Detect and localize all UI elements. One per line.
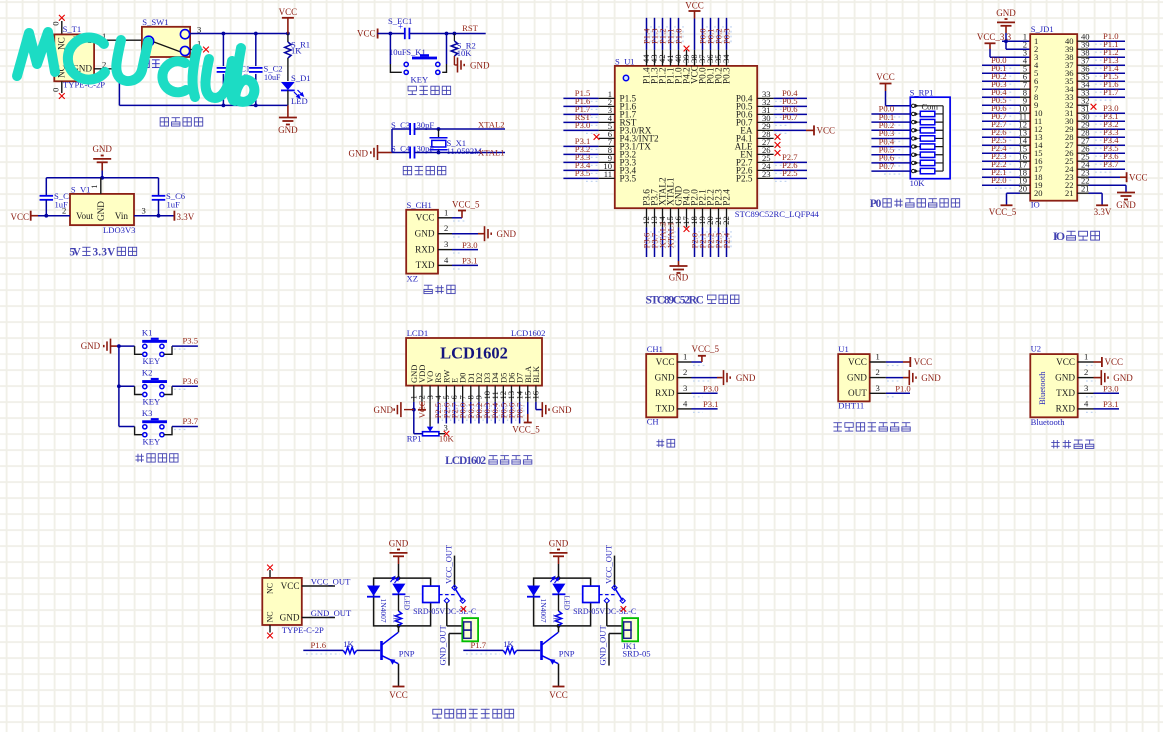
JD1 right pin 36 P1.4: [1077, 63, 1125, 76]
svg-text:LCD1602: LCD1602: [511, 328, 545, 338]
svg-text:3: 3: [876, 383, 880, 393]
chip top pin 44 P1.4: [641, 18, 651, 84]
svg-text:P0.3: P0.3: [721, 67, 731, 84]
svg-text:KEY: KEY: [143, 356, 161, 366]
svg-text:P3.0: P3.0: [1103, 383, 1119, 393]
svg-text:TXD: TXD: [416, 260, 435, 270]
svg-text:SRD-05: SRD-05: [622, 649, 650, 659]
svg-text:LCD1602: LCD1602: [445, 455, 486, 467]
svg-text:GND: GND: [1113, 373, 1133, 383]
svg-text:U1: U1: [838, 344, 849, 354]
chip top pin 41 P1.1: [665, 18, 675, 84]
svg-text:Vin: Vin: [115, 211, 129, 221]
svg-text:VCC: VCC: [389, 690, 408, 700]
LCD pin4 P2.5: [433, 386, 443, 424]
svg-text:XTAL2: XTAL2: [478, 120, 505, 130]
svg-text:LCD1602: LCD1602: [440, 344, 508, 363]
LED relay P1.7: [551, 577, 572, 611]
value 10K RP1: [910, 178, 926, 188]
svg-text:P2.4: P2.4: [721, 232, 731, 248]
svg-text:GND: GND: [996, 8, 1016, 18]
caption 温湿度检测模块: [833, 423, 910, 431]
chip left pin 11 P3.5: [563, 168, 636, 183]
resistor 1K vertical P1.6: [392, 594, 402, 626]
chip bottom pin 17 P4.0: [681, 189, 691, 232]
power port VCC transistor P1.7: [549, 664, 568, 700]
connector S_CH1 XZ: [406, 210, 438, 284]
svg-text:21: 21: [1065, 188, 1074, 198]
svg-text:RXD: RXD: [415, 244, 435, 254]
JD1 left pin 7 P0.3: [982, 79, 1030, 92]
power port VCC_5 download: [438, 200, 480, 222]
net label XTAL1: [478, 147, 505, 157]
svg-text:K3: K3: [142, 408, 153, 418]
chip left pin 7 P3.1/TX: [563, 136, 651, 151]
svg-text:1: 1: [876, 352, 880, 362]
wire GND to JD1 pin1: [1002, 40, 1030, 42]
wire input P1.6: [303, 650, 343, 654]
switch label 开关: [141, 60, 159, 68]
LCD pin7 P0.0: [457, 386, 467, 424]
svg-text:P3.7: P3.7: [1103, 159, 1119, 169]
diode 1N4007 P1.6: [367, 586, 388, 623]
svg-text:VCC_OUT: VCC_OUT: [604, 544, 614, 584]
ground GND keys: [81, 339, 119, 354]
svg-text:VCC_3.3: VCC_3.3: [977, 32, 1012, 42]
svg-text:P0.7: P0.7: [879, 161, 895, 171]
regulator U LDO3V3: [70, 178, 135, 235]
connector CH1 designator: [647, 344, 663, 354]
capacitor S_C4 30pF: [391, 143, 434, 158]
chip bottom pin 22 P2.4: [721, 189, 731, 257]
svg-text:1K: 1K: [343, 639, 354, 649]
svg-text:S_SW1: S_SW1: [142, 17, 168, 27]
svg-text:KEY: KEY: [143, 437, 161, 447]
wire Vin to 3.3V: [134, 206, 195, 222]
svg-text:VCC: VCC: [281, 581, 300, 591]
chip top pin 40 P1.0: [673, 18, 683, 84]
potentiometer RP1 10K: [407, 423, 455, 444]
svg-text:10K: 10K: [910, 178, 926, 188]
switch S_SW1: [142, 27, 190, 57]
svg-text:1: 1: [683, 352, 687, 362]
svg-text:1N4007: 1N4007: [379, 599, 388, 623]
svg-text:VCC: VCC: [416, 213, 435, 223]
wire input P1.7: [463, 650, 503, 654]
wire keys common vertical: [117, 344, 121, 426]
svg-text:VCC: VCC: [876, 72, 895, 82]
chip right pin 28 P4.1: [736, 129, 781, 144]
JD1 right pin 25 P3.6: [1077, 151, 1125, 164]
resistor S_R1 1K: [285, 34, 310, 82]
svg-text:GND_OUT: GND_OUT: [598, 625, 608, 666]
capacitor S_C2 10uF: [249, 63, 283, 82]
LCD pin3 VO to wiper: [425, 386, 435, 432]
svg-text:PNP: PNP: [559, 649, 575, 659]
chip top pin 42 P1.2: [657, 18, 667, 84]
wire P0.5 to RP1: [871, 144, 910, 157]
wire C4 to XTAL1: [415, 151, 506, 155]
svg-text:S_T1: S_T1: [63, 24, 82, 34]
svg-text:CH: CH: [647, 417, 659, 427]
svg-text:P3.5: P3.5: [575, 168, 591, 178]
net label P1.6: [311, 640, 327, 650]
chip top pin 35 P0.2: [713, 18, 723, 84]
svg-text:S_C2: S_C2: [264, 63, 283, 73]
sensor U1 designator: [838, 344, 849, 354]
svg-text:10uF: 10uF: [264, 73, 281, 82]
JD1 left pin 9 P0.5: [982, 95, 1030, 108]
connector relay TYPE-C-2P: [262, 578, 324, 635]
LCD pin12 P0.5: [498, 386, 508, 424]
svg-text:P3.6: P3.6: [183, 376, 199, 386]
LCD pin15 BLA to VCC_5: [522, 386, 532, 423]
svg-text:P3.1: P3.1: [462, 256, 478, 266]
LED S_D1: [281, 73, 311, 106]
no-connect X at TYPE-C T1 pin bottom: [51, 81, 65, 99]
chip right pin 24 P2.6: [736, 160, 807, 175]
svg-text:Bluetooth: Bluetooth: [1037, 371, 1047, 405]
svg-text:OUT: OUT: [848, 388, 867, 398]
LCD pin1 GND wire: [409, 386, 419, 434]
svg-text:10K: 10K: [457, 48, 473, 58]
JD1 left pin 18 P2.1: [982, 167, 1030, 180]
no-connect switch pin1: [190, 39, 209, 53]
svg-text:GND: GND: [349, 149, 369, 159]
svg-text:GND: GND: [389, 539, 409, 549]
chip bottom pin 12 P3.6: [641, 189, 651, 257]
svg-text:GND: GND: [549, 539, 569, 549]
crystal S_X1 11.0592M: [430, 129, 483, 156]
svg-text:VCC: VCC: [1056, 357, 1075, 367]
wire P0.0 to RP1: [871, 104, 910, 117]
svg-text:IO: IO: [1031, 200, 1040, 210]
power port VCC DHT11: [870, 352, 932, 368]
resistor 1K vertical P1.7: [552, 594, 562, 626]
svg-text:GND: GND: [847, 372, 867, 382]
key K2 designator: [142, 368, 153, 378]
chip bottom pin 20 P2.2: [705, 189, 715, 257]
wire C2 to rail: [255, 74, 257, 106]
wire T1 pin1 to switch: [94, 31, 142, 41]
JD1 left pin 17 P2.2: [982, 159, 1030, 172]
svg-text:3: 3: [142, 206, 146, 216]
JD1 right pin 29 P3.2: [1077, 119, 1125, 132]
relay coil SRD-05VDC-SL-C P1.7: [573, 586, 636, 616]
net GND_OUT P1.7: [598, 625, 623, 666]
key K2 KEY: [119, 378, 172, 406]
sensor U1 DHT11: [838, 354, 870, 410]
JD1 pin 22 to GND: [1077, 175, 1126, 192]
svg-text:1K: 1K: [291, 46, 302, 56]
switch S_SW1 designator: [142, 17, 168, 27]
svg-text:VCC: VCC: [1105, 357, 1124, 367]
svg-text:4: 4: [683, 398, 688, 408]
connector S_JD1 IO 40-pin: [1030, 34, 1077, 201]
svg-text:TXD: TXD: [1056, 388, 1075, 398]
module U2 designator: [1031, 343, 1042, 353]
svg-text:STC89C52RC: STC89C52RC: [645, 294, 704, 306]
key S_K1 designator: [406, 47, 426, 57]
svg-text:GND: GND: [552, 405, 572, 415]
chip left pin 2 P1.6: [563, 96, 636, 111]
wire P1.0 DHT11: [870, 383, 911, 397]
svg-text:3.3V: 3.3V: [92, 246, 115, 258]
ground GND reset: [454, 56, 490, 73]
svg-text:20: 20: [1018, 183, 1027, 193]
caption 5V转3.3V电路: [69, 246, 136, 258]
wire relay frame P1.7: [534, 576, 591, 628]
resistor S_R2 10K: [451, 34, 476, 59]
JD1 right pin 39 P1.1: [1077, 39, 1125, 52]
chip right pin 23 P2.5: [736, 168, 807, 183]
chip right pin 29 EA: [740, 121, 835, 136]
svg-text:1N4007: 1N4007: [539, 599, 548, 623]
JD1 left pin 11 P0.7: [982, 111, 1030, 124]
net label P1.7: [471, 640, 487, 650]
wire P3.1 serial: [677, 398, 718, 412]
chip bottom pin 13 P3.7: [649, 189, 659, 257]
ground GND of power circuit: [278, 105, 298, 135]
LCD1602 part label: [511, 328, 545, 338]
wire to C2: [255, 34, 257, 67]
net GND_OUT P1.6: [438, 625, 463, 666]
JD1 pin numbers 1-3 outside: [1023, 31, 1027, 57]
svg-text:P0: P0: [870, 198, 882, 210]
LCD pin13 P0.6: [506, 386, 516, 424]
key S_K1 KEY: [390, 54, 446, 84]
terminal JK P1.7: [622, 618, 650, 659]
svg-text:XZ: XZ: [407, 274, 418, 284]
regulator S_V1 designator: [71, 185, 91, 195]
svg-text:GND: GND: [736, 373, 756, 383]
svg-text:IO: IO: [1053, 229, 1065, 243]
key K3 designator: [142, 408, 153, 418]
LCD pin9 P0.2: [474, 386, 484, 424]
caption LCD1602显示模块: [445, 455, 532, 467]
caption 复位电路: [408, 86, 451, 94]
wire P0.2 to RP1: [871, 120, 910, 133]
ground GND relay P1.7: [549, 539, 569, 579]
svg-text:VCC_OUT: VCC_OUT: [444, 544, 454, 584]
svg-text:LED: LED: [291, 96, 308, 106]
svg-text:P2.5: P2.5: [782, 168, 798, 178]
net VCC_OUT P1.7: [604, 544, 615, 588]
LCD1602 display body: [406, 338, 542, 386]
svg-text:RXD: RXD: [655, 388, 675, 398]
key S_K1 left leg: [389, 34, 391, 65]
resistor 1K input P1.6: [343, 639, 377, 654]
svg-text:1K: 1K: [503, 639, 514, 649]
wire NO contact to JK P1.6: [447, 603, 463, 626]
svg-text:10K: 10K: [439, 434, 455, 444]
svg-text:P3.0: P3.0: [703, 383, 719, 393]
svg-text:VCC_5: VCC_5: [692, 344, 720, 354]
svg-text:GND: GND: [1055, 372, 1075, 382]
wire P0.6 to RP1: [871, 153, 910, 166]
svg-text:P2.0: P2.0: [991, 175, 1007, 185]
caption STC89C52RC主芯片: [645, 294, 738, 306]
svg-text:2: 2: [1084, 367, 1088, 377]
ground GND DHT11: [870, 367, 942, 385]
svg-text:DHT11: DHT11: [838, 400, 864, 410]
JD1 left pin 15 P2.4: [982, 143, 1030, 156]
svg-text:TXD: TXD: [656, 404, 675, 414]
relay coil SRD-05VDC-SL-C P1.6: [413, 586, 476, 616]
svg-text:P1.7: P1.7: [1103, 87, 1119, 97]
svg-text:VCC_5: VCC_5: [989, 207, 1017, 217]
svg-text:GND: GND: [81, 341, 101, 351]
svg-text:P1.7: P1.7: [471, 640, 487, 650]
svg-text:GND: GND: [280, 613, 300, 623]
svg-text:S_D1: S_D1: [291, 73, 311, 83]
JD1 pin 23 VCC: [1077, 167, 1147, 182]
svg-text:TYPE-C-2P: TYPE-C-2P: [282, 625, 324, 635]
net label RST: [462, 23, 479, 33]
svg-text:VCC: VCC: [848, 357, 867, 367]
key K1 designator: [142, 327, 153, 337]
JD1 left pin 12 P2.7: [982, 119, 1030, 132]
svg-text:GND: GND: [921, 373, 941, 383]
wire relay frame P1.6: [374, 576, 431, 628]
LCD pin5 P2.6: [441, 386, 451, 424]
ground GND bluetooth: [1078, 367, 1134, 385]
ground GND JD1 bottom right: [1116, 193, 1136, 211]
svg-text:P3.0: P3.0: [575, 120, 591, 130]
svg-text:P0.7: P0.7: [782, 112, 798, 122]
wire K2 to P3.6: [172, 376, 199, 389]
svg-text:STC89C52RC_LQFP44: STC89C52RC_LQFP44: [735, 209, 820, 219]
JD1 left pin 4 P0.0: [982, 55, 1030, 68]
chip bottom pin 18 P2.0: [689, 189, 699, 257]
wire GND_OUT stub: [302, 608, 352, 618]
power VCC_5 LCD: [512, 424, 540, 434]
svg-text:P3.0: P3.0: [462, 240, 478, 250]
svg-text:VCC_5: VCC_5: [512, 424, 540, 434]
key K1 KEY: [119, 338, 172, 366]
power port VCC reset: [357, 29, 404, 39]
svg-text:GND: GND: [415, 229, 435, 239]
chip part name STC89C52RC_LQFP44: [735, 209, 820, 219]
JD1 left pin 19 P2.0: [982, 175, 1030, 188]
caption 串口: [656, 439, 674, 447]
chip left pin 3 P1.7: [563, 104, 636, 119]
svg-text:VCC: VCC: [914, 357, 933, 367]
svg-text:3.3V: 3.3V: [1094, 207, 1112, 217]
svg-text:3: 3: [683, 383, 687, 393]
svg-text:+: +: [398, 22, 403, 32]
svg-text:4: 4: [1084, 398, 1089, 408]
JD1 right pin 28 P3.3: [1077, 127, 1125, 140]
JD1 left pin 8 P0.4: [982, 87, 1030, 100]
LCD pin8 P0.1: [465, 386, 475, 424]
svg-text:P2.4: P2.4: [721, 189, 731, 206]
svg-text:P3.5: P3.5: [183, 336, 199, 346]
chip bottom pin 14 XTAL2: [657, 177, 667, 257]
connector S_JD1 IO label: [1031, 200, 1040, 210]
ground GND JD1 top: [996, 8, 1016, 49]
svg-text:20: 20: [1034, 188, 1043, 198]
svg-text:GND: GND: [1116, 200, 1136, 210]
svg-text:S_CH1: S_CH1: [407, 200, 432, 210]
JD1 right pin 38 P1.2: [1077, 47, 1125, 60]
connector S_T1 designator: [63, 24, 82, 34]
wire C3 to XTAL2: [415, 127, 506, 131]
svg-text:S_JD1: S_JD1: [1031, 24, 1054, 34]
net label XTAL2: [478, 120, 505, 130]
power circuit bottom rail: [119, 104, 288, 108]
wire P3.0 bluetooth: [1078, 383, 1119, 397]
chip right pin 25 P2.7: [736, 152, 807, 167]
JD1 right pin 32 no-connect: [1077, 95, 1096, 109]
ground GND LCD right: [542, 402, 572, 417]
svg-text:P0.7: P0.7: [515, 402, 525, 418]
svg-text:GND: GND: [470, 60, 490, 70]
LCD pin6 P2.7: [449, 386, 459, 424]
JD1 right pin 35 P1.5: [1077, 71, 1125, 84]
LCD pin16 BLK to GND: [531, 386, 542, 410]
caption P0口上拉电阻电路: [870, 198, 960, 210]
svg-text:3: 3: [1023, 47, 1027, 57]
power port VCC: [279, 7, 298, 34]
svg-text:1: 1: [1084, 352, 1088, 362]
svg-text:VCC: VCC: [817, 125, 836, 135]
capacitor S_C1 10uF: [217, 63, 250, 82]
svg-text:P1.6: P1.6: [311, 640, 327, 650]
svg-text:Bluetooth: Bluetooth: [1031, 417, 1066, 427]
svg-text:2: 2: [683, 367, 687, 377]
resistor pack S_RP1 10K: [910, 97, 950, 179]
svg-text:GND: GND: [92, 144, 112, 154]
svg-text:LED: LED: [563, 596, 572, 611]
chip top pin 43 P1.3: [649, 18, 659, 84]
chip right pin 26 EN: [740, 145, 780, 160]
wire to C1: [222, 34, 224, 67]
power port VCC left: [10, 206, 70, 222]
wire P3.1 download: [438, 255, 478, 269]
svg-text:VCC: VCC: [10, 212, 29, 222]
wire C5 to VCC line: [45, 200, 47, 216]
svg-text:GND: GND: [96, 201, 106, 221]
svg-text:2: 2: [444, 223, 448, 233]
ground GND LCD left: [374, 402, 414, 417]
connector S_CH1 designator: [407, 200, 432, 210]
LCD pin10 P0.3: [482, 386, 492, 424]
svg-text:GND: GND: [278, 125, 298, 135]
svg-text:K1: K1: [142, 327, 153, 337]
svg-text:1: 1: [444, 207, 448, 217]
wire C1 to rail: [222, 74, 224, 106]
chip left pin 8 P3.2: [563, 144, 636, 159]
svg-text:LCD1: LCD1: [407, 328, 428, 338]
caption 按键电路: [135, 454, 178, 462]
power port VCC_3.3: [977, 32, 1030, 57]
svg-text:P1.0: P1.0: [673, 28, 683, 44]
chip left pin 10 P3.4: [563, 160, 636, 175]
chip bottom pin 21 P2.3: [713, 189, 723, 257]
module U2 Bluetooth: [1030, 354, 1077, 427]
wire P0.3 to RP1: [871, 128, 910, 141]
svg-text:RXD: RXD: [1056, 404, 1076, 414]
caption 蓝牙模块: [1051, 440, 1094, 448]
JD1 left pin 16 P2.3: [982, 151, 1030, 164]
svg-text:VCC: VCC: [357, 29, 376, 39]
power port VCC_5 serial: [677, 344, 719, 366]
svg-text:1K: 1K: [392, 614, 401, 624]
no-connect X relay TYPE-C top: [267, 565, 273, 578]
power port VCC RP1: [876, 72, 910, 106]
svg-text:0: 0: [51, 88, 61, 92]
